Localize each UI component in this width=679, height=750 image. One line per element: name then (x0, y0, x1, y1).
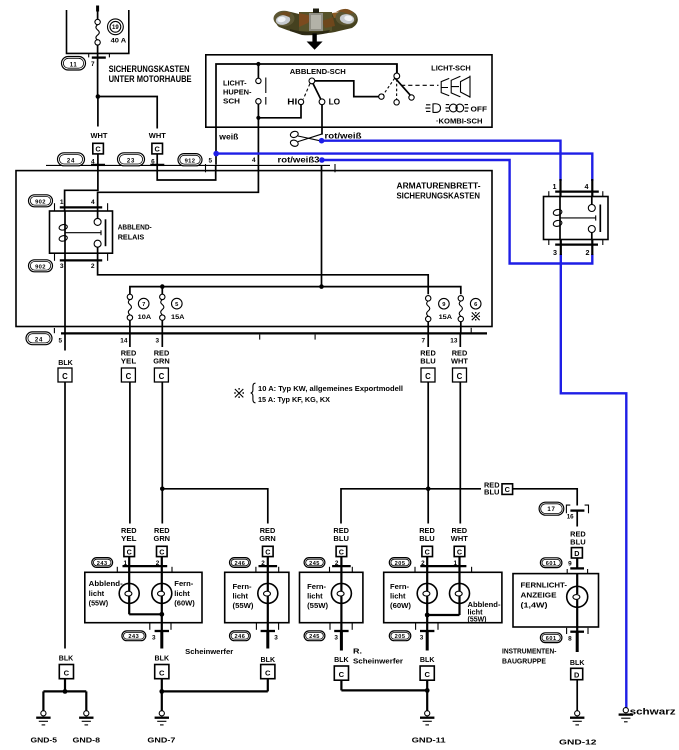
wire GND-11 join (341, 688, 429, 693)
svg-text:4: 4 (91, 199, 95, 206)
fuse F6 asterisk (458, 296, 463, 334)
fuse F6 label (470, 298, 481, 320)
svg-text:BLU: BLU (333, 536, 349, 543)
bulb fernlicht anzeige (567, 574, 588, 632)
svg-text:C: C (155, 145, 161, 154)
connector C pin2 headlight L (157, 546, 168, 566)
svg-text:24: 24 (67, 158, 75, 164)
oval 246 top (230, 558, 251, 568)
added relay (right) pins 1 4 (549, 179, 603, 197)
svg-text:(55W): (55W) (233, 603, 254, 610)
connector C fernlicht RH (336, 546, 347, 566)
svg-text:R.: R. (353, 647, 362, 656)
wire weiss feed inside switch (216, 64, 397, 165)
svg-text:OFF: OFF (471, 105, 488, 114)
svg-text:2: 2 (586, 248, 590, 257)
svg-text:3: 3 (420, 634, 424, 641)
svg-text:BLU: BLU (420, 358, 436, 365)
label Abblendlicht 55W (89, 581, 124, 607)
svg-text:7: 7 (91, 61, 95, 68)
svg-text:3: 3 (274, 634, 278, 641)
node bottom LICHT-HUPEN (256, 116, 260, 120)
svg-text:licht: licht (89, 591, 105, 598)
svg-text:C: C (457, 548, 462, 557)
connector C pin2 headlight R (422, 546, 433, 566)
connector C RED YEL mid (121, 368, 135, 382)
svg-text:WHT: WHT (451, 536, 469, 543)
fuse F5 15A (160, 294, 165, 333)
abblend relay contact (65, 211, 106, 253)
svg-text:(1,4W): (1,4W) (521, 600, 549, 609)
oval 17 (539, 502, 564, 515)
added relay pins 3 2 (549, 239, 603, 257)
blue wire 2 weiss to relay pin4 (216, 154, 592, 181)
svg-text:902: 902 (35, 200, 46, 206)
abblend relay coil (58, 211, 67, 253)
label R. Scheinwerfer (353, 647, 403, 666)
svg-text:5: 5 (58, 337, 62, 344)
svg-text:1: 1 (553, 182, 557, 191)
label RED BLU inline (484, 483, 500, 497)
connector bar headlight L top (117, 566, 172, 572)
svg-text:23: 23 (127, 158, 135, 164)
wire relay pin2 to fuse 9 (98, 253, 429, 294)
ground GND-7 (155, 711, 169, 725)
svg-text:D: D (574, 670, 580, 679)
svg-text:LICHT-: LICHT- (223, 78, 247, 87)
junction WHT split (96, 94, 101, 99)
oval 601 top (540, 558, 562, 568)
svg-text:RED: RED (420, 350, 436, 357)
svg-text:RED: RED (419, 528, 435, 535)
svg-text:YEL: YEL (121, 358, 137, 365)
ground schwarz (619, 708, 633, 722)
svg-text:7: 7 (421, 337, 425, 344)
ground GND-12 (570, 711, 584, 725)
bulb fern R (417, 566, 437, 631)
svg-text:(55W): (55W) (307, 603, 328, 610)
connector C pin1 headlight R (454, 546, 465, 566)
svg-text:4: 4 (252, 157, 256, 164)
svg-text:C: C (339, 670, 345, 679)
oval 912 (178, 154, 202, 166)
headlight L box (85, 572, 202, 622)
connector C RED BLU inline (502, 484, 513, 495)
bulb abblend R (450, 566, 470, 615)
svg-text:BAUGRUPPE: BAUGRUPPE (502, 657, 546, 666)
svg-text:C: C (265, 669, 271, 678)
connector bottom instrument (567, 628, 588, 652)
svg-text:WHT: WHT (91, 131, 109, 140)
svg-text:Scheinwerfer: Scheinwerfer (353, 656, 403, 665)
svg-text:LICHT-SCH: LICHT-SCH (431, 64, 471, 73)
blue wire 1 rot/weiss to relay pin1 (322, 141, 561, 181)
svg-text:RED: RED (452, 528, 468, 535)
label ABBLEND-RELAIS (118, 223, 152, 242)
svg-text:weiß: weiß (218, 132, 238, 141)
svg-text:ABBLEND-SCH: ABBLEND-SCH (290, 67, 346, 76)
svg-text:C: C (265, 548, 270, 557)
connector 11 pin 7 (62, 54, 110, 97)
connector C RED GRN mid (154, 368, 168, 382)
oval 601 bottom (540, 633, 562, 643)
label RED GRN mid (153, 350, 170, 365)
svg-text:SCH: SCH (223, 96, 240, 105)
connector bottom fernlicht LH (256, 623, 278, 648)
svg-text:(60W): (60W) (390, 603, 411, 610)
label RED YEL headlight L (121, 528, 137, 543)
connector C headlight R gnd (420, 666, 434, 711)
svg-text:BLU: BLU (419, 536, 435, 543)
svg-text:205: 205 (395, 634, 406, 640)
wire RED YEL (129, 333, 131, 347)
connector bottom fernlicht RH (330, 623, 352, 650)
combination switch photo (274, 9, 358, 36)
svg-text:Fern-: Fern- (233, 584, 253, 591)
svg-text:GND-11: GND-11 (412, 736, 447, 745)
connector C box WHT right (152, 143, 163, 165)
svg-text:licht: licht (174, 591, 190, 598)
svg-text:licht: licht (390, 594, 406, 601)
arrow to switch box (307, 34, 323, 50)
svg-text:C: C (127, 548, 132, 557)
note asterisk mark (234, 388, 244, 398)
connector bar headlight R top (415, 566, 472, 572)
label RED WHT mid (451, 350, 469, 365)
junction RED GRN branch (160, 487, 165, 492)
wire fuse5 drop (161, 287, 163, 295)
svg-text:RED: RED (333, 528, 349, 535)
wire lamp join R (427, 614, 459, 616)
label Fernlicht 55W RH (307, 584, 328, 610)
blue wire 3 relay pin2 to rot/weiss3 (322, 160, 592, 264)
blue tap dot 1 (319, 138, 325, 144)
icon headlamp trapezoid (461, 76, 471, 98)
svg-text:C: C (457, 372, 463, 381)
svg-text:BLU: BLU (570, 539, 586, 546)
svg-text:Fern-: Fern- (390, 584, 410, 591)
label FERNLICHT-ANZEIGE (521, 580, 568, 609)
wire ABBLEND pivot to LICHT-SCH contact (315, 81, 379, 97)
svg-text:INSTRUMENTEN-: INSTRUMENTEN- (502, 647, 557, 656)
link WHT pin6 to weiss pin5 (157, 165, 216, 180)
label RED BLU headlight 3 (333, 528, 349, 543)
svg-text:C: C (126, 372, 132, 381)
svg-text:GRN: GRN (153, 358, 170, 365)
oval 24 (58, 153, 85, 166)
svg-text:WHT: WHT (451, 358, 469, 365)
wire lamp join L (129, 613, 162, 615)
svg-text:RELAIS: RELAIS (118, 232, 145, 241)
fusible link 40A wire (95, 6, 100, 58)
svg-text:WHT: WHT (149, 131, 167, 140)
label Fernlicht 60W L (174, 581, 195, 607)
connector bar instrument top (567, 568, 587, 574)
svg-text:(55W): (55W) (468, 617, 487, 624)
wire rot/weiss3 to fuse bus (321, 165, 323, 286)
bulb fern L (152, 566, 172, 631)
svg-text:SICHERUNGSKASTEN: SICHERUNGSKASTEN (397, 192, 481, 201)
svg-text:11: 11 (70, 62, 78, 68)
svg-text:C: C (424, 670, 430, 679)
label LICHT-HUPEN-SCH (223, 78, 252, 105)
svg-text:205: 205 (395, 561, 406, 567)
note brace (251, 383, 256, 403)
switch LICHT-SCH (379, 64, 439, 105)
wire switch pin 4 output (257, 118, 259, 165)
oval 23 (118, 153, 145, 166)
svg-text:ARMATURENBRETT-: ARMATURENBRETT- (397, 181, 481, 190)
svg-text:FERNLICHT-: FERNLICHT- (521, 580, 568, 589)
ground GND-5 (36, 711, 50, 725)
svg-text:(55W): (55W) (89, 600, 109, 607)
oval 243 bottom (122, 631, 146, 641)
svg-text:ANZEIGE: ANZEIGE (521, 590, 557, 599)
svg-text:YEL: YEL (121, 536, 137, 543)
instrument box (513, 574, 599, 627)
oval 205 bottom (389, 631, 411, 641)
svg-text:6: 6 (151, 159, 155, 166)
svg-text:BLK: BLK (261, 657, 276, 664)
svg-text:601: 601 (546, 636, 557, 642)
blue wire relay pin3 to ground (561, 254, 627, 708)
T-bar pin 4 (91, 164, 105, 166)
svg-text:246: 246 (234, 634, 245, 640)
node top LICHT-HUPEN (256, 62, 260, 66)
blue tap dot 2 (213, 151, 219, 157)
svg-text:246: 246 (234, 561, 245, 567)
svg-text:10 A: Typ KW, allgemeines Expo: 10 A: Typ KW, allgemeines Exportmodell (258, 386, 403, 393)
svg-text:·KOMBI-SCH: ·KOMBI-SCH (436, 117, 483, 126)
svg-text:245: 245 (309, 634, 320, 640)
svg-text:RED: RED (452, 350, 468, 357)
svg-text:BLK: BLK (570, 660, 585, 667)
svg-text:RED: RED (121, 528, 137, 535)
bulb fernlicht LH (258, 566, 278, 631)
label RED YEL mid (121, 350, 137, 365)
svg-text:Fern-: Fern- (307, 584, 327, 591)
wire RED BLU branch right to C (428, 488, 481, 490)
wire HI to node (258, 105, 301, 118)
label Fernlicht 55W LH (233, 584, 254, 610)
svg-text:rot/weiß: rot/weiß (325, 132, 362, 141)
oval 246 bottom (230, 631, 251, 641)
svg-text:24: 24 (35, 337, 43, 343)
svg-text:C: C (425, 372, 431, 381)
svg-text:Abblend-: Abblend- (468, 602, 502, 609)
label RED WHT headlight R (451, 528, 469, 543)
connector bar fernlicht RH (330, 566, 353, 572)
note text fuse variants (258, 386, 403, 404)
label ARMATURENBRETT-SICHERUNGSKASTEN (397, 181, 481, 200)
svg-text:BLK: BLK (155, 656, 170, 663)
junction RED BLU branch (426, 487, 431, 492)
svg-text:3: 3 (334, 634, 338, 641)
tick marks connector row (206, 164, 336, 172)
svg-text:GRN: GRN (154, 536, 171, 543)
svg-text:rot/weiß3: rot/weiß3 (278, 155, 321, 164)
svg-text:4: 4 (585, 182, 589, 191)
added relay coil (553, 197, 563, 240)
wire switch pin4 to relay coil (98, 165, 259, 207)
bulb fernlicht RH (331, 566, 351, 631)
svg-text:3: 3 (60, 263, 64, 270)
label Abblendlicht 55W R (468, 602, 502, 624)
svg-text:RED: RED (484, 483, 500, 490)
svg-text:Scheinwerfer: Scheinwerfer (185, 647, 233, 656)
svg-text:9: 9 (568, 561, 572, 568)
label RED GRN headlight 2 (259, 528, 276, 543)
svg-text:GND-5: GND-5 (31, 736, 58, 745)
svg-text:RED: RED (570, 531, 586, 538)
icon lamp small 2 (451, 76, 460, 97)
fuse F9 label (439, 298, 453, 320)
svg-text:GRN: GRN (259, 536, 276, 543)
svg-text:HI: HI (287, 98, 297, 107)
connector C pin1 headlight L (124, 546, 135, 566)
connector C RED BLU mid (421, 368, 435, 382)
svg-text:Fern-: Fern- (174, 581, 194, 588)
svg-text:HUPEN-: HUPEN- (223, 87, 252, 96)
combination switch box (206, 55, 492, 127)
dash fuse box outline (16, 171, 492, 327)
svg-text:ABBLEND-: ABBLEND- (118, 223, 152, 232)
connector D instrument top (571, 548, 582, 569)
ground GND-11 (420, 711, 434, 725)
label RED GRN headlight L (154, 528, 171, 543)
icon headlight position (445, 104, 468, 112)
svg-text:15A: 15A (171, 314, 185, 321)
added relay box (544, 197, 609, 240)
svg-text:GND-12: GND-12 (559, 738, 597, 747)
svg-text:(60W): (60W) (174, 600, 195, 607)
switch ABBLEND-SCH (298, 78, 325, 105)
connector D instrument bottom (571, 668, 583, 710)
label INSTRUMENTEN-BAUGRUPPE (502, 647, 557, 666)
oval 205 top (389, 558, 411, 568)
svg-text:schwarz: schwarz (630, 706, 677, 716)
wire GND-7 join (159, 689, 267, 711)
svg-text:4: 4 (91, 159, 95, 166)
connector 17 pin 16 (566, 505, 588, 526)
junction R (425, 613, 430, 618)
label RED BLU instrument (570, 531, 586, 546)
svg-text:C: C (339, 548, 344, 557)
junction fuse5 (160, 284, 165, 289)
svg-text:LO: LO (329, 98, 341, 107)
svg-text:RED: RED (154, 528, 170, 535)
svg-text:243: 243 (97, 561, 108, 567)
bottom connector bar of dash box (61, 332, 487, 334)
svg-text:17: 17 (547, 507, 555, 513)
svg-text:3: 3 (155, 337, 159, 344)
svg-text:1: 1 (60, 199, 64, 206)
svg-text:8: 8 (568, 635, 572, 642)
oval 24 bottom (26, 332, 52, 345)
svg-text:15A: 15A (439, 314, 453, 321)
wire WHT branch (98, 97, 157, 129)
oval 902 top (29, 195, 53, 207)
connector bar fernlicht LH (256, 566, 279, 572)
svg-text:BLU: BLU (484, 490, 500, 497)
headlight R box (384, 572, 502, 622)
svg-text:902: 902 (35, 265, 46, 271)
svg-text:RED: RED (121, 350, 137, 357)
oval 902 bottom (29, 260, 53, 272)
wire WHT to relay pin1 (65, 165, 98, 207)
svg-text:C: C (425, 548, 430, 557)
svg-text:13: 13 (450, 337, 458, 344)
svg-text:licht: licht (233, 594, 249, 601)
svg-text:2: 2 (91, 263, 95, 270)
svg-text:5: 5 (208, 157, 212, 164)
svg-text:243: 243 (128, 634, 139, 640)
blue tap dot 3 (319, 157, 325, 163)
oval 245 top (304, 558, 325, 568)
wire RED BLU (427, 333, 429, 347)
added relay contact (560, 197, 600, 240)
svg-text:GND-7: GND-7 (147, 736, 175, 745)
bulb abblend L (119, 566, 139, 614)
svg-text:3: 3 (553, 248, 557, 257)
svg-text:15 A: Typ KF, KG, KX: 15 A: Typ KF, KG, KX (258, 397, 330, 404)
svg-text:912: 912 (185, 158, 196, 164)
svg-text:UNTER MOTORHAUBE: UNTER MOTORHAUBE (109, 74, 192, 84)
ticks bottom connector (54, 328, 471, 340)
oval 243 top (92, 558, 113, 568)
svg-text:7: 7 (142, 302, 145, 308)
connector C ground left (59, 665, 73, 692)
svg-text:SICHERUNGSKASTEN: SICHERUNGSKASTEN (109, 64, 190, 74)
scissors cut symbol (290, 130, 323, 147)
svg-text:BLK: BLK (58, 360, 73, 367)
svg-text:GND-8: GND-8 (73, 736, 101, 745)
svg-text:BLK: BLK (420, 657, 435, 664)
abblend relay box (50, 211, 113, 253)
fernlicht RH box (300, 572, 363, 622)
wire rot/weiss from LO cut (321, 105, 323, 135)
svg-text:C: C (505, 485, 511, 494)
connector C RED WHT mid (453, 368, 467, 382)
junction L (159, 612, 164, 617)
connector bottom headlight R (416, 623, 438, 650)
connector C fernlicht LH gnd (261, 665, 275, 692)
connector C box WHT left (93, 143, 104, 165)
label RED BLU mid (420, 350, 436, 365)
fuse F9 15A (426, 296, 431, 334)
fork GND-5 GND-8 (43, 689, 86, 711)
junction rot/weiss3 (319, 284, 324, 289)
svg-text:C: C (95, 145, 101, 154)
abblend relay pins 3 2 (55, 253, 108, 270)
wire relay pin3 down (64, 253, 66, 333)
wire RED WHT (459, 333, 461, 347)
svg-text:16: 16 (567, 513, 574, 520)
svg-text:licht: licht (307, 594, 323, 601)
wire RED GRN branch to left headlight 2 (162, 489, 267, 524)
svg-text:10A: 10A (138, 314, 152, 321)
svg-text:3: 3 (152, 634, 156, 641)
label SICHERUNGSKASTEN UNTER MOTORHAUBE (109, 64, 192, 84)
svg-text:RED: RED (260, 528, 276, 535)
svg-text:Abblend-: Abblend- (89, 581, 124, 588)
icon lamp small 1 (441, 78, 449, 95)
svg-text:BLK: BLK (334, 657, 349, 664)
fuse box under hood outline (67, 10, 129, 53)
svg-text:C: C (64, 669, 70, 678)
svg-text:601: 601 (546, 561, 557, 567)
fuse 19 40A label (108, 19, 127, 44)
